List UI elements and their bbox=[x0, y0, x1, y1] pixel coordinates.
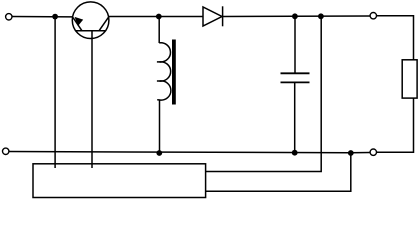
wire load bottom to bottom rail bbox=[377, 98, 414, 152]
control block U1 bbox=[33, 164, 206, 198]
inductor L1 bbox=[157, 43, 171, 100]
wire from output terminal to load bbox=[377, 16, 414, 60]
diode D1 bbox=[203, 6, 223, 26]
inductor core bar bbox=[172, 40, 176, 105]
wire vertical from node A to control box bbox=[54, 17, 56, 168]
input terminal top-left bbox=[6, 14, 12, 20]
wire top rail left segment bbox=[12, 16, 72, 18]
wire inductor top lead bbox=[158, 17, 160, 44]
node E junction dot (feedback bottom) bbox=[348, 150, 354, 156]
output terminal bottom-right bbox=[370, 149, 376, 155]
wire capacitor bottom lead bbox=[294, 82, 296, 152]
wire capacitor top lead bbox=[294, 17, 296, 74]
input terminal bottom-left bbox=[2, 148, 8, 154]
node B junction dot (inductor top) bbox=[156, 14, 162, 20]
wire bottom rail main bbox=[9, 152, 351, 153]
wire bottom rail right segment bbox=[351, 152, 370, 154]
node D junction dot (feedback top) bbox=[318, 13, 324, 19]
node G junction dot (capacitor bottom) bbox=[292, 150, 298, 156]
transistor Q1 bbox=[72, 2, 109, 39]
capacitor C1 bbox=[281, 73, 310, 82]
wire top rail middle segment bbox=[109, 16, 203, 18]
node A junction dot bbox=[52, 14, 58, 20]
wire top rail right segment bbox=[223, 15, 370, 18]
node F junction dot (inductor bottom) bbox=[156, 150, 162, 156]
wire feedback sense line from node D down to control box bbox=[206, 17, 322, 172]
wire feedback return from node E to control box bbox=[206, 153, 351, 191]
resistor R1 (load) bbox=[402, 60, 417, 98]
output terminal top-right bbox=[370, 13, 376, 19]
node C junction dot (capacitor top) bbox=[292, 13, 298, 19]
wire inductor bottom lead bbox=[159, 100, 161, 153]
wire base lead down to control box bbox=[91, 31, 93, 168]
